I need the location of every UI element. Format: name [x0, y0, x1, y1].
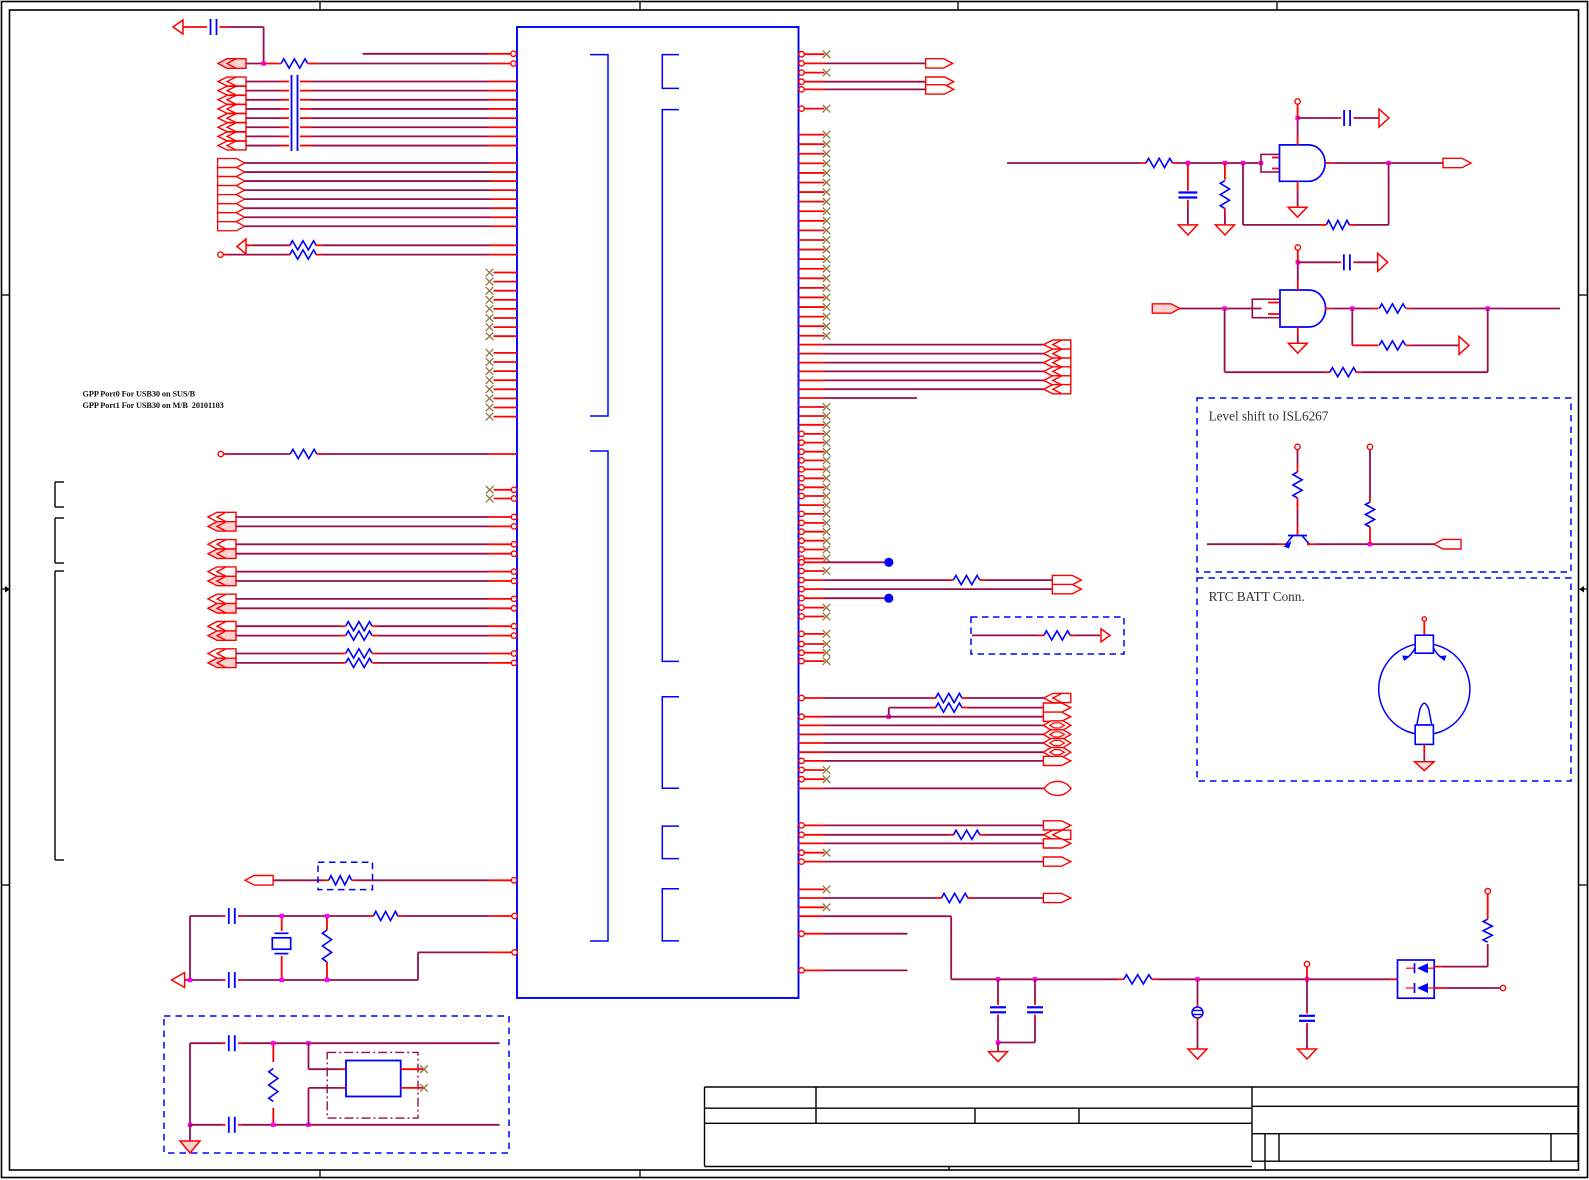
- svg-text:RTC BATT Conn.: RTC BATT Conn.: [1209, 589, 1305, 604]
- svg-text:GPP Port0 For USB30 on SUS/B: GPP Port0 For USB30 on SUS/B: [83, 390, 196, 399]
- svg-text:Level shift to ISL6267: Level shift to ISL6267: [1209, 409, 1329, 424]
- svg-text:GPP Port1 For USB30 on M/B 20: GPP Port1 For USB30 on M/B 20101103: [83, 401, 224, 410]
